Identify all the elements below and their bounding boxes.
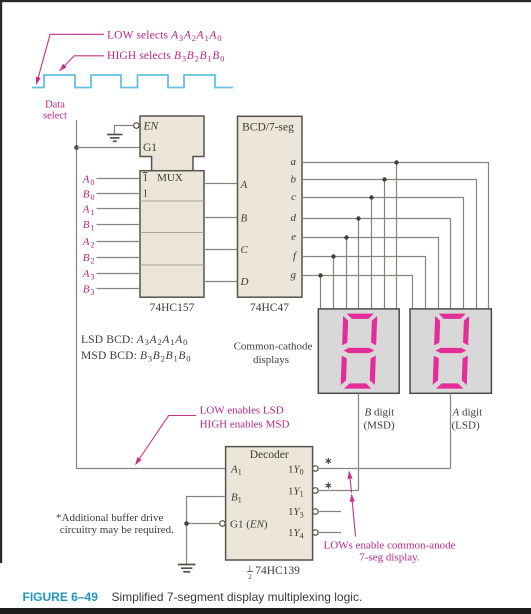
callout leader: LOW enables LSD	[136, 416, 197, 465]
wire: 1Y0 to display A	[318, 468, 450, 470]
svg-text:1: 1	[143, 172, 149, 184]
page top border	[0, 0, 531, 2]
pin labels a-g	[291, 156, 298, 281]
svg-text:3: 3	[91, 288, 95, 297]
wire: display B cathode down to 1Y1	[358, 393, 360, 490]
wire: 1Y4 stub	[318, 532, 341, 534]
display A seven-segment digit 8	[433, 314, 470, 389]
wires MUX outputs to BCD inputs	[204, 184, 238, 282]
display A digit (LSD) box	[410, 309, 491, 393]
svg-text:Common-cathode: Common-cathode	[234, 341, 313, 353]
ground (decoder)	[178, 565, 196, 572]
input labels A0,B0,A1,B1,A2,B2,A3,B3	[82, 173, 95, 297]
wire: data select vertical bus	[77, 120, 226, 469]
svg-text:B: B	[83, 219, 90, 231]
svg-text:c: c	[291, 191, 296, 203]
bubble: EN active-low	[134, 123, 140, 129]
waveform data select (square wave)	[32, 75, 233, 88]
BCD/7-seg decoder 74HC47 body	[238, 116, 303, 297]
svg-text:EN: EN	[143, 120, 160, 132]
wire segment d	[302, 219, 451, 309]
svg-text:BCD/7-seg: BCD/7-seg	[242, 122, 294, 134]
bubble: G1 active-low input	[220, 521, 226, 527]
svg-text:g: g	[291, 269, 297, 281]
svg-text:74HC47: 74HC47	[250, 302, 289, 314]
svg-text:e: e	[291, 231, 296, 243]
svg-text:circuitry may be required.: circuitry may be required.	[60, 524, 174, 536]
svg-text:LOWs enable common-anode: LOWs enable common-anode	[324, 539, 456, 551]
svg-text:0: 0	[91, 178, 95, 187]
svg-text:7-seg display.: 7-seg display.	[359, 552, 420, 564]
svg-text:B: B	[241, 213, 248, 225]
svg-text:B: B	[83, 252, 90, 264]
callout leader: LOW selects	[36, 34, 104, 84]
wire segment e	[302, 238, 439, 309]
svg-text:B: B	[83, 283, 90, 295]
pin labels A B C D	[240, 179, 249, 288]
svg-text:displays: displays	[253, 354, 289, 366]
input wires A0..B3	[97, 179, 141, 289]
svg-text:Decoder: Decoder	[250, 449, 289, 461]
svg-text:Data: Data	[45, 100, 65, 111]
svg-text:(MSD): (MSD)	[364, 420, 396, 432]
svg-text:74HC157: 74HC157	[150, 302, 195, 314]
svg-text:1: 1	[91, 208, 95, 217]
display B digit (MSD) box	[318, 309, 399, 393]
wire segment f	[302, 257, 426, 309]
mux 74HC157 body	[140, 171, 204, 298]
wire: G1 to junction	[187, 523, 220, 525]
svg-text:1: 1	[143, 188, 149, 200]
wire: G1 input	[77, 147, 141, 149]
svg-text:A digit: A digit	[452, 407, 483, 419]
asterisk on 1Y1	[326, 483, 331, 489]
asterisk on 1Y0	[326, 458, 331, 464]
wire segment c	[302, 198, 464, 309]
svg-text:HIGH enables MSD: HIGH enables MSD	[200, 418, 290, 430]
svg-text:B digit: B digit	[365, 407, 395, 419]
wire: B1 to ground	[187, 497, 226, 565]
display B seven-segment digit 8	[341, 314, 378, 389]
svg-text:a: a	[291, 156, 297, 168]
svg-text:B: B	[83, 189, 90, 201]
figure caption	[23, 590, 363, 604]
svg-text:A: A	[82, 268, 90, 280]
wire segment b	[302, 180, 477, 309]
svg-text:A: A	[82, 204, 90, 216]
svg-text:G1 (EN): G1 (EN)	[230, 518, 268, 530]
svg-text:A: A	[82, 173, 90, 185]
svg-text:1: 1	[91, 223, 95, 232]
svg-text:2: 2	[248, 573, 252, 581]
page left border	[0, 0, 2, 563]
svg-text:C: C	[241, 244, 249, 256]
svg-text:0: 0	[91, 193, 95, 202]
wire segment g	[302, 276, 413, 309]
junction: B1/G1 ground	[184, 521, 189, 526]
svg-text:2: 2	[91, 257, 95, 266]
mux 74HC157 control block (EN/G1)	[140, 116, 204, 171]
svg-text:A: A	[240, 179, 248, 191]
svg-text:MUX: MUX	[157, 172, 183, 184]
mux section separators	[140, 201, 204, 265]
page bottom bar	[0, 608, 531, 614]
junction: data select to G1	[74, 145, 79, 150]
wire: 1Y3 stub	[318, 511, 341, 513]
pin labels 1Y0,1Y1,1Y3,1Y4	[288, 463, 304, 540]
bubbles: decoder outputs	[313, 466, 319, 536]
wire: EN input to ground	[115, 126, 134, 135]
wire: 1Y1 to display B	[318, 490, 358, 492]
svg-text:(LSD): (LSD)	[452, 420, 480, 432]
svg-text:*Additional buffer drive: *Additional buffer drive	[56, 512, 163, 524]
svg-text:Simplified 7-segment display m: Simplified 7-segment display multiplexin…	[112, 590, 363, 604]
wire segment a	[302, 163, 489, 309]
svg-text:LOW enables LSD: LOW enables LSD	[200, 405, 284, 417]
svg-text:1: 1	[248, 564, 252, 572]
wire: display A cathode down to 1Y0	[450, 393, 452, 468]
decoder 74HC139 body	[226, 447, 313, 560]
svg-text:b: b	[291, 173, 297, 185]
svg-text:select: select	[43, 111, 67, 122]
svg-text:A: A	[82, 236, 90, 248]
callout leaders: LOWs enable (double arrow)	[352, 495, 356, 537]
svg-text:D: D	[240, 276, 249, 288]
svg-text:FIGURE 6–49: FIGURE 6–49	[23, 590, 99, 604]
svg-text:74HC139: 74HC139	[255, 565, 300, 577]
svg-text:d: d	[291, 212, 297, 224]
ground (MUX EN)	[107, 135, 123, 142]
svg-text:2: 2	[91, 241, 95, 250]
callout leader: HIGH selects	[60, 56, 104, 71]
svg-text:3: 3	[91, 273, 95, 282]
svg-text:G1: G1	[143, 142, 157, 154]
